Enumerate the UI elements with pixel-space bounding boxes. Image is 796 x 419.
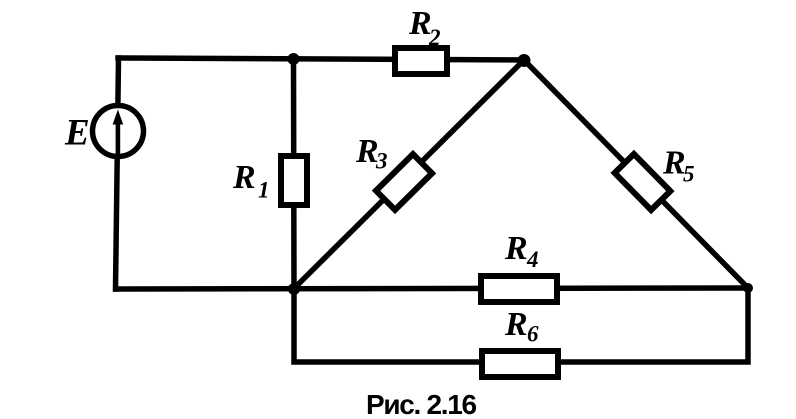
node G right node dot (743, 283, 753, 293)
svg-text:R: R (232, 159, 256, 196)
svg-text:4: 4 (526, 247, 539, 272)
svg-text:1: 1 (258, 178, 270, 203)
voltage source E circle (93, 106, 144, 157)
svg-text:E: E (64, 113, 90, 154)
resistor R2 box (395, 48, 447, 74)
svg-text:3: 3 (375, 149, 388, 174)
node C top node dot (518, 54, 531, 67)
svg-text:Рис. 2.16: Рис. 2.16 (366, 389, 477, 419)
resistor R3 box (376, 154, 432, 210)
wire top: node A (116,58) to node C (524,60) (118, 58, 524, 60)
resistor R5 box (615, 154, 671, 210)
svg-text:5: 5 (683, 162, 695, 187)
wire R1 branch vertical: B (293.5,59) to D (294,289) (291, 59, 297, 289)
svg-text:R: R (504, 230, 528, 267)
node D bottom junction dot (288, 283, 300, 295)
resistor R4 box (481, 276, 557, 302)
resistor R1 box (281, 156, 307, 205)
wire R6 loop: D down, across, up to G (294, 288, 748, 362)
wire diagonal D to C (R3 branch) (294, 60, 524, 289)
svg-text:6: 6 (527, 322, 539, 347)
voltage source arrow (113, 110, 124, 159)
svg-text:R: R (504, 306, 528, 343)
resistor R6 box (482, 351, 558, 377)
wire bottom: F (116,289) to G (748,288) (116, 288, 748, 289)
node B junction dot (288, 53, 300, 65)
wire left vertical: A down through source to F (116,289) (116, 58, 119, 289)
svg-text:2: 2 (428, 25, 441, 50)
wire diagonal C to G (R5 branch) (524, 60, 748, 288)
